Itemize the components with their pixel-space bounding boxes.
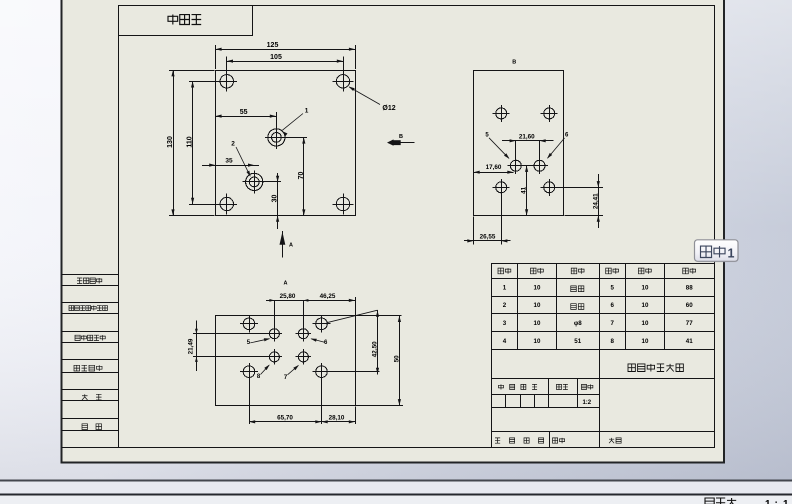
dim 130 [169, 70, 215, 72]
hole table headers [498, 268, 504, 274]
dim 17,60 [474, 172, 514, 174]
svg-text:10: 10 [642, 320, 649, 327]
inner frame [119, 6, 715, 448]
dim 35 [202, 165, 259, 167]
dim 50 (far right) [356, 315, 401, 317]
section arrow A (below view1) [282, 231, 284, 258]
svg-text:125: 125 [267, 42, 279, 49]
svg-text:10: 10 [642, 338, 649, 345]
svg-text:1:2: 1:2 [582, 400, 591, 406]
dim 42,50 (right) [327, 310, 378, 323]
title box 中间垫 [119, 6, 253, 36]
dim 21,60 [515, 141, 517, 159]
svg-text:1: 1 [503, 284, 507, 291]
svg-text:42,50: 42,50 [372, 341, 379, 357]
dim 65,70 / 28,10 (bottom) [249, 378, 251, 425]
svg-text:130: 130 [167, 136, 174, 148]
dim 70 [286, 137, 307, 139]
svg-text:3: 3 [503, 320, 507, 327]
svg-text:10: 10 [534, 320, 541, 327]
svg-text:10: 10 [642, 302, 649, 309]
svg-text:B: B [399, 134, 403, 140]
dim 25,80 / 46,25 [274, 300, 276, 327]
status bar [0, 479, 792, 481]
title block [492, 378, 715, 380]
view3 plate outline [216, 316, 356, 406]
svg-text:10: 10 [534, 284, 541, 291]
view1 plate outline [216, 71, 356, 216]
svg-text:21,60: 21,60 [519, 134, 535, 141]
school name 合肥工业大学 [628, 364, 635, 372]
svg-text:6: 6 [610, 302, 614, 309]
svg-text:26,55: 26,55 [480, 233, 496, 240]
svg-text:7: 7 [610, 320, 614, 327]
hole table [492, 263, 715, 265]
dim 105 [226, 57, 228, 74]
view2 corner holes [496, 108, 507, 119]
view1 counterbore hole 2 [246, 173, 263, 190]
svg-text:88: 88 [686, 284, 693, 291]
svg-text:35: 35 [225, 157, 233, 164]
svg-text:77: 77 [686, 320, 693, 327]
svg-text:51: 51 [574, 338, 581, 345]
svg-text:2: 2 [231, 141, 235, 148]
svg-text:A: A [289, 243, 293, 249]
bottom row texts [495, 438, 500, 443]
svg-text:55: 55 [240, 109, 248, 116]
svg-text:105: 105 [270, 54, 282, 61]
view2 middle holes [510, 160, 521, 171]
svg-text:30: 30 [272, 195, 279, 203]
svg-text:17,60: 17,60 [486, 164, 502, 171]
svg-text:B: B [512, 60, 516, 66]
svg-text:Ø12: Ø12 [382, 105, 395, 112]
svg-text:25,80: 25,80 [280, 293, 296, 300]
svg-text:24,41: 24,41 [592, 193, 599, 209]
svg-text:1: 1 [783, 499, 789, 504]
svg-text:A: A [284, 281, 288, 287]
svg-text:60: 60 [686, 302, 693, 309]
svg-text:1: 1 [765, 499, 771, 504]
svg-text:φ8: φ8 [574, 320, 582, 327]
view3 middle holes [269, 329, 279, 339]
svg-text::: : [775, 499, 778, 504]
tooltip 图纸1 [696, 241, 739, 262]
svg-text:41: 41 [686, 338, 693, 345]
dim 30 [264, 181, 281, 183]
svg-text:28,10: 28,10 [329, 414, 345, 421]
svg-text:10: 10 [534, 338, 541, 345]
view3 corner holes [243, 318, 255, 330]
drawing sheet [62, 0, 725, 463]
dim 41 [526, 166, 528, 216]
svg-text:5: 5 [610, 284, 614, 291]
dim 21,49 (left) [193, 333, 269, 335]
view1 counterbore hole 1 [268, 129, 285, 146]
svg-text:65,70: 65,70 [277, 414, 293, 421]
svg-text:46,25: 46,25 [320, 293, 336, 300]
svg-text:10: 10 [642, 284, 649, 291]
svg-text:2: 2 [503, 302, 507, 309]
view2 plate outline [474, 71, 564, 216]
dim 55 [276, 112, 278, 126]
view1 corner holes [220, 75, 233, 88]
dim 24,41 [555, 187, 603, 189]
svg-text:1: 1 [728, 247, 735, 261]
svg-text:10: 10 [534, 302, 541, 309]
svg-text:21,49: 21,49 [188, 338, 195, 354]
svg-text:1: 1 [305, 108, 309, 115]
status text 自定义 1:1 [705, 498, 714, 504]
svg-text:4: 4 [503, 338, 507, 345]
svg-text:70: 70 [298, 172, 305, 180]
svg-text:50: 50 [393, 355, 400, 363]
svg-text:41: 41 [521, 186, 528, 194]
title block texts [499, 384, 504, 389]
revision block rows [62, 274, 119, 276]
svg-text:110: 110 [187, 136, 194, 147]
dim 26,55 [473, 216, 475, 244]
dim 125 [215, 45, 217, 69]
section arrow B (right of view1) [388, 142, 415, 144]
svg-text:8: 8 [610, 338, 614, 345]
dim 110 [189, 81, 220, 83]
